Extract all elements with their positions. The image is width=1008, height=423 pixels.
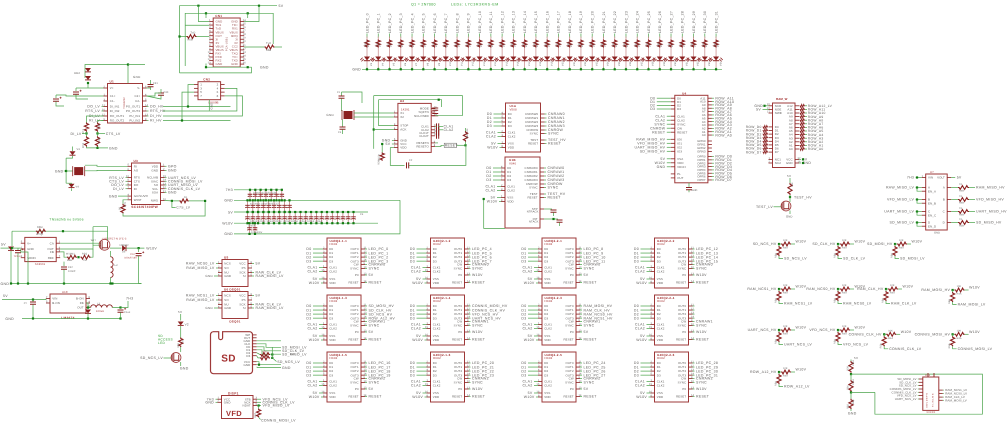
svg-text:SD_MISO_HV: SD_MISO_HV bbox=[976, 221, 1002, 225]
pin U2 CLK2 bbox=[431, 129, 435, 131]
svg-text:R4A: R4A bbox=[783, 375, 788, 378]
svg-text:TK: TK bbox=[959, 218, 963, 221]
pin U40Q2-1-1 CLK1 bbox=[323, 267, 327, 269]
svg-text:CLK2: CLK2 bbox=[433, 270, 441, 274]
svg-text:10K: 10K bbox=[466, 128, 469, 133]
diode pair DE2 bbox=[85, 68, 91, 72]
pin U40Q2-1-2 CLK1 bbox=[427, 267, 431, 269]
pin U1A CLK2 bbox=[502, 136, 506, 138]
pin U9 SHDN bbox=[21, 257, 25, 259]
pin RAM A2 net ROW_A2 bbox=[795, 141, 799, 143]
pins U1B bottom extras bbox=[540, 208, 544, 210]
pin RAM A6 net ROW_A6 bbox=[795, 126, 799, 128]
svg-text:2K: 2K bbox=[435, 44, 438, 47]
resistor R116 2K bbox=[545, 40, 549, 48]
resistor divider down for VFD_NCS_LV bbox=[837, 330, 839, 332]
svg-text:XXXXX: XXXXX bbox=[926, 411, 935, 414]
pin U40Q2-2-2 OUT1 net LED_PC_13 bbox=[689, 252, 693, 254]
junction LED column 6 to GND rail bbox=[434, 68, 436, 70]
pin U1B D3 bbox=[501, 179, 505, 181]
resistor R82 chain bbox=[850, 392, 852, 398]
svg-text:SYNC: SYNC bbox=[584, 267, 595, 271]
svg-text:SHDN: SHDN bbox=[27, 256, 36, 260]
svg-text:W10V: W10V bbox=[524, 338, 535, 342]
svg-text:CLK2: CLK2 bbox=[657, 270, 665, 274]
svg-text:SC16IS740IPW: SC16IS740IPW bbox=[131, 205, 158, 209]
svg-text:31: 31 bbox=[243, 44, 247, 47]
svg-text:L2: L2 bbox=[115, 264, 119, 267]
resistor divider down for RAM_MOSI_LV bbox=[952, 290, 954, 292]
wire LED column 5 bbox=[422, 34, 424, 39]
svg-text:RAW_MISO_LV: RAW_MISO_LV bbox=[886, 186, 915, 190]
svg-text:GND: GND bbox=[224, 400, 231, 404]
pin CN1 right 1 bbox=[240, 21, 244, 23]
svg-text:10K: 10K bbox=[888, 330, 893, 333]
svg-text:V14: V14 bbox=[494, 61, 497, 66]
wire LED column 0 bbox=[366, 34, 368, 39]
wire LED column 26 bbox=[659, 34, 661, 39]
svg-text:CLA2: CLA2 bbox=[635, 384, 645, 388]
junction LED column 29 to GND rail bbox=[693, 68, 695, 70]
svg-text:A0: A0 bbox=[702, 133, 706, 137]
pin U40Q2-2-6 D2 bbox=[651, 370, 655, 372]
svg-text:VDCH: VDCH bbox=[677, 165, 686, 169]
svg-text:2K: 2K bbox=[502, 44, 505, 47]
svg-text:CLK2: CLK2 bbox=[657, 327, 665, 331]
wire U9 GND down bbox=[21, 249, 28, 284]
svg-text:C1-: C1- bbox=[110, 99, 115, 103]
capacitor buck output bbox=[118, 310, 124, 312]
pin CN3 left net CONNIS_MOSI_LV bbox=[919, 388, 923, 390]
svg-text:A: A bbox=[943, 186, 945, 190]
svg-text:12: 12 bbox=[208, 58, 212, 61]
svg-text:W10V: W10V bbox=[901, 330, 912, 334]
junction LED column 12 to GND rail bbox=[501, 68, 503, 70]
pin U9 GND bbox=[21, 248, 25, 250]
pin U40Q2-1-5 VDD bbox=[323, 396, 327, 398]
svg-text:GND: GND bbox=[210, 103, 214, 110]
svg-text:R16: R16 bbox=[432, 42, 435, 47]
resistor divider down for SD_MOSI_LV bbox=[894, 244, 896, 246]
svg-text:CLK2: CLK2 bbox=[657, 384, 665, 388]
pin CN2 left 3 bbox=[194, 87, 198, 89]
svg-text:GND: GND bbox=[244, 363, 251, 367]
svg-text:C3: C3 bbox=[338, 131, 342, 134]
svg-text:OUT: OUT bbox=[77, 306, 84, 310]
pin U40Q2-2-4 OUT2 net None bbox=[689, 313, 693, 315]
pin U40Q2-1-6 OUT2 net LED_PC_22 bbox=[465, 370, 469, 372]
svg-text:RAM_MISO_HV: RAM_MISO_HV bbox=[976, 186, 1005, 190]
pin U3 NWG with resistor R7B bbox=[161, 200, 165, 202]
junction LED column 11 to GND rail bbox=[490, 68, 492, 70]
svg-text:GND: GND bbox=[260, 65, 269, 69]
net label RAM_NCS0_LV output bbox=[838, 301, 842, 304]
pin U40Q2-1-3 P0 bbox=[361, 331, 365, 333]
pin U4 A4 net ROW_A4 bbox=[708, 121, 712, 123]
pin U1 V+ bbox=[104, 87, 108, 89]
svg-text:100nF 4u7/10V C36: 100nF 4u7/10V C36 bbox=[253, 192, 277, 195]
svg-text:RESET: RESET bbox=[472, 281, 486, 285]
wire U2 top loop bbox=[374, 96, 463, 116]
svg-text:2K: 2K bbox=[671, 44, 674, 47]
pin CN1 left 6 bbox=[209, 38, 213, 40]
svg-text:R4A: R4A bbox=[957, 337, 962, 340]
svg-text:2K: 2K bbox=[424, 44, 427, 47]
svg-text:RESET: RESET bbox=[696, 281, 710, 285]
pin CN2 left 7 bbox=[194, 95, 198, 97]
resistor R76 chain bbox=[849, 361, 853, 373]
resistor R119 2K bbox=[579, 40, 583, 48]
svg-text:R4A: R4A bbox=[842, 292, 847, 295]
svg-text:7: 7 bbox=[200, 94, 202, 98]
svg-text:VOLT: VOLT bbox=[937, 176, 945, 180]
svg-text:SYNC: SYNC bbox=[696, 324, 707, 328]
svg-text:W10V: W10V bbox=[796, 326, 807, 330]
svg-text:D3: D3 bbox=[507, 178, 511, 182]
pin U1 C1+ bbox=[104, 95, 108, 97]
pin RAM D2 net ROW_D2 bbox=[769, 133, 773, 135]
svg-text:CLK2: CLK2 bbox=[507, 189, 515, 193]
feedback resistors R5B TM below boost bbox=[60, 252, 67, 257]
svg-text:V-: V- bbox=[137, 86, 140, 90]
svg-text:CONNIS_MOSI_LV: CONNIS_MOSI_LV bbox=[261, 418, 296, 422]
LED V25 bbox=[634, 57, 640, 61]
svg-text:SD_MOSI_LV: SD_MOSI_LV bbox=[900, 257, 925, 261]
pin U1 PO_OUT1 net DO_HV bbox=[143, 106, 147, 108]
svg-text:RESET: RESET bbox=[696, 338, 710, 342]
pin U40Q2-1-1 RESET bbox=[361, 282, 365, 284]
svg-text:VIN: VIN bbox=[52, 297, 57, 301]
IC U11 MISO buffer bbox=[926, 174, 948, 230]
pin U40Q2-2-5 CLK2 bbox=[538, 385, 542, 387]
pin U1 C2+ bbox=[143, 95, 147, 97]
pin CN1 right 2 bbox=[240, 24, 244, 26]
pin U10 VIN bbox=[46, 298, 50, 300]
junction LED column 21 to GND rail bbox=[602, 68, 604, 70]
pin U4 A8 net ROW_A8 bbox=[708, 107, 712, 109]
pin U4 VSA bbox=[671, 158, 675, 160]
ground below chain bbox=[850, 409, 852, 411]
svg-text:GND: GND bbox=[848, 412, 857, 416]
svg-text:R15: R15 bbox=[421, 42, 424, 47]
svg-text:W10V: W10V bbox=[487, 146, 498, 150]
pin U40Q2-1-6 CLK2 bbox=[427, 385, 431, 387]
svg-text:SYNC: SYNC bbox=[548, 132, 559, 136]
pin CN1 left 5 bbox=[209, 35, 213, 37]
svg-text:P0: P0 bbox=[570, 273, 574, 277]
pin U40Q2-1-2 D1 bbox=[427, 252, 431, 254]
svg-text:RESET: RESET bbox=[676, 281, 686, 285]
crystal Q2 circuit bbox=[65, 158, 67, 183]
svg-text:SYNC: SYNC bbox=[548, 186, 559, 190]
svg-text:RI_HV: RI_HV bbox=[150, 119, 162, 123]
svg-text:V34: V34 bbox=[719, 61, 722, 66]
resistor pullup to W10V for CONNIS_MOSI_HV bbox=[953, 333, 955, 335]
svg-text:LED_PC_11: LED_PC_11 bbox=[489, 11, 493, 33]
svg-text:PS: PS bbox=[242, 298, 246, 302]
pin CN1 left 9 bbox=[209, 49, 213, 51]
svg-text:EN_C: EN_C bbox=[928, 213, 936, 217]
pin RAM A11 net ROW_A11 bbox=[795, 108, 799, 110]
svg-text:SD_MOSI_HV: SD_MOSI_HV bbox=[867, 242, 893, 246]
net label CONNIS_MOSI_LV output bbox=[953, 346, 957, 349]
svg-text:D3: D3 bbox=[650, 107, 655, 111]
pin CN1 right 13 bbox=[240, 63, 244, 65]
svg-text:SD_NCS_LV: SD_NCS_LV bbox=[140, 356, 163, 360]
svg-text:CLA2: CLA2 bbox=[308, 270, 318, 274]
pin U4 A0 net ROW_A0 bbox=[708, 134, 712, 136]
pin U40Q2-1-5 OUT2 net LED_PC_18 bbox=[361, 370, 365, 372]
svg-text:FB: FB bbox=[50, 250, 54, 254]
pin U40Q2-2-5 OUT0 net LED_PC_24 bbox=[576, 362, 580, 364]
pin U11 A net RAW_MISO_LV bbox=[922, 187, 926, 189]
pin U40Q2-2-2 VSS bbox=[651, 278, 655, 280]
pin U2 RESETN bbox=[431, 142, 435, 144]
svg-text:SYNC: SYNC bbox=[584, 381, 595, 385]
IC U8 RAM 512K bbox=[773, 103, 796, 168]
svg-text:P0: P0 bbox=[682, 273, 686, 277]
pin U4 IO3 net SD_MISO_HV bbox=[671, 150, 675, 152]
wire LED column 22 bbox=[614, 34, 616, 39]
junction LED column 15 to GND rail bbox=[535, 68, 537, 70]
pin U11 EN_C enable bbox=[922, 214, 926, 216]
svg-text:CA: CA bbox=[50, 241, 54, 245]
pin U11 D net SD_MISO_LV bbox=[922, 222, 926, 224]
svg-text:SYNC: SYNC bbox=[472, 267, 483, 271]
pin U40Q2-1-4 VDD bbox=[427, 339, 431, 341]
svg-text:D3: D3 bbox=[329, 259, 333, 263]
svg-text:5V: 5V bbox=[3, 294, 8, 298]
pin U40Q2-2-6 D0 bbox=[651, 362, 655, 364]
svg-text:CLK2: CLK2 bbox=[544, 270, 552, 274]
svg-text:10K: 10K bbox=[890, 284, 895, 287]
wire LED column 9 bbox=[467, 34, 469, 39]
pin DISP1 VCC net 3V3 bbox=[218, 398, 222, 400]
IC U40Q2-2-1 shift register bbox=[542, 238, 576, 288]
pin U3 RTS net RTS_LV bbox=[128, 177, 132, 179]
LED V16 bbox=[533, 57, 539, 61]
svg-text:W10V: W10V bbox=[309, 281, 320, 285]
pin U40Q2-1-1 D3 bbox=[323, 260, 327, 262]
pin U40Q2-2-3 CLK1 bbox=[538, 324, 542, 326]
pin U40Q2-1-3 VSS bbox=[323, 335, 327, 337]
pin CN3 right net RAM_CLK_LV bbox=[939, 396, 943, 398]
junction LED column 14 to GND rail bbox=[524, 68, 526, 70]
svg-text:5V: 5V bbox=[369, 273, 374, 277]
svg-text:VFD_NCS_HV: VFD_NCS_HV bbox=[809, 328, 836, 332]
svg-text:SO: SO bbox=[224, 298, 229, 302]
pin U4 CLA1 bbox=[671, 115, 675, 117]
pin SD VCC bbox=[253, 361, 257, 363]
svg-text:2K: 2K bbox=[604, 44, 607, 47]
pin U40Q2-2-5 D0 bbox=[538, 362, 542, 364]
svg-text:W10V: W10V bbox=[696, 330, 707, 334]
svg-text:V31: V31 bbox=[685, 61, 688, 66]
pin U1A D1 bbox=[502, 117, 506, 119]
svg-text:RAW_MOSI_LV: RAW_MOSI_LV bbox=[256, 306, 285, 310]
diode V4 below crystal bbox=[69, 184, 75, 188]
IC U40Q2-2-6 shift register bbox=[655, 352, 689, 402]
pin SRAM SCK net RAW_CLK_LV bbox=[248, 304, 252, 306]
pin U40Q2-1-5 RESET bbox=[361, 396, 365, 398]
pin SRAM SCK net RAW_CLK_LV bbox=[248, 272, 252, 274]
svg-text:GND: GND bbox=[786, 161, 793, 165]
capacitor C30 bbox=[158, 93, 164, 95]
net label C7S_LV at U3 bbox=[172, 201, 176, 208]
svg-text:RO_OUT2: RO_OUT2 bbox=[110, 119, 125, 123]
pin U40Q2-1-6 OUT0 net LED_PC_20 bbox=[465, 362, 469, 364]
pin CN2 left 5 bbox=[194, 91, 198, 93]
LED V2 SD access bbox=[178, 322, 184, 326]
pin CN3 right net RAM_MOSI_LV bbox=[939, 399, 943, 401]
svg-text:SD_CLK_LV: SD_CLK_LV bbox=[843, 257, 866, 261]
pin U2 STOP bbox=[394, 125, 398, 127]
pin U40Q2-2-2 OUT0 net LED_PC_12 bbox=[689, 248, 693, 250]
svg-text:SYNC: SYNC bbox=[472, 381, 483, 385]
svg-text:Q1 = 2N7000: Q1 = 2N7000 bbox=[411, 3, 436, 7]
pin U40Q2-1-6 P0 bbox=[465, 388, 469, 390]
svg-text:W10V: W10V bbox=[855, 326, 866, 330]
wire bus box around cap bank bbox=[251, 200, 400, 234]
svg-text:GND: GND bbox=[109, 146, 118, 150]
pin U40Q2-2-6 CW net CNRAW2 bbox=[689, 378, 693, 380]
svg-text:SYNC: SYNC bbox=[678, 381, 687, 385]
pin U40Q2-1-1 OUT1 net LED_PC_1 bbox=[361, 252, 365, 254]
pin U3 CTS net CTS_LV bbox=[128, 180, 132, 182]
svg-text:R4A: R4A bbox=[783, 333, 788, 336]
svg-text:R4A: R4A bbox=[957, 293, 962, 296]
svg-text:RESET: RESET bbox=[676, 395, 686, 399]
svg-text:R4A: R4A bbox=[842, 247, 847, 250]
svg-text:GND: GND bbox=[205, 401, 214, 405]
svg-text:R91: R91 bbox=[847, 384, 850, 389]
svg-text:7: 7 bbox=[59, 255, 61, 258]
svg-text:2K: 2K bbox=[716, 44, 719, 47]
svg-text:TK: TK bbox=[959, 207, 963, 210]
svg-text:NCS: NCS bbox=[224, 294, 230, 298]
resistor pullup to W10V for RAM_CLK_HV bbox=[886, 288, 888, 290]
wire LED column 4 bbox=[411, 34, 413, 39]
pin U4 OPR7 net ROW_D7 bbox=[708, 179, 712, 181]
svg-text:V9: V9 bbox=[438, 62, 441, 66]
svg-text:VDD: VDD bbox=[329, 281, 335, 285]
svg-text:GND: GND bbox=[786, 215, 793, 219]
resistor divider down for ROW_A12_LV bbox=[778, 372, 780, 374]
pin U11 EN_A enable bbox=[922, 190, 926, 192]
svg-text:CLK2T: CLK2T bbox=[419, 134, 429, 138]
svg-text:GND: GND bbox=[109, 194, 118, 198]
svg-text:100nF: 100nF bbox=[68, 270, 76, 273]
svg-text:CLA2: CLA2 bbox=[523, 270, 533, 274]
svg-text:LED_PC_3: LED_PC_3 bbox=[399, 13, 403, 33]
resistor pullup to W10V for RAM_NCS0_HV bbox=[838, 288, 840, 290]
svg-text:GND: GND bbox=[133, 75, 141, 79]
pin U4 OPR2 net ROW_D2 bbox=[708, 162, 712, 164]
pin U1A VDD bbox=[502, 147, 506, 149]
svg-text:VFD_NCS_LV: VFD_NCS_LV bbox=[843, 343, 869, 347]
svg-text:GND: GND bbox=[5, 317, 14, 321]
pin U40Q2-1-6 VDD bbox=[427, 396, 431, 398]
pin U40Q2-2-6 OUT2 net LED_PC_30 bbox=[689, 370, 693, 372]
wire boost GND rail bbox=[11, 283, 142, 285]
svg-text:SC4501: SC4501 bbox=[35, 263, 46, 266]
svg-text:UART_NCS_LV: UART_NCS_LV bbox=[784, 343, 812, 347]
svg-text:W10x: W10x bbox=[378, 153, 381, 160]
pin CN3 right net RAM_NCS0_LV bbox=[939, 393, 943, 395]
pin CN1 right 12 bbox=[240, 60, 244, 62]
svg-text:LED_PC_21: LED_PC_21 bbox=[602, 11, 606, 33]
pin CN1 left 4 bbox=[209, 31, 213, 33]
svg-text:V+: V+ bbox=[27, 241, 31, 245]
capacitor C input boost bbox=[15, 251, 21, 253]
svg-text:V23: V23 bbox=[595, 61, 598, 66]
pin RAM D3 net ROW_D3 bbox=[769, 137, 773, 139]
IC U40Q2-2-5 shift register bbox=[542, 352, 576, 402]
svg-text:8: 8 bbox=[89, 296, 91, 299]
svg-text:TK: TK bbox=[959, 195, 963, 198]
svg-text:U5: U5 bbox=[224, 255, 229, 259]
pin CN2 right 2 bbox=[221, 84, 225, 86]
pin CN1 right 7 bbox=[240, 42, 244, 44]
svg-text:RAM_NCS1_HV: RAM_NCS1_HV bbox=[747, 287, 777, 291]
net label RAM_MOSI_LV output bbox=[953, 302, 957, 305]
pin U4 D3 bbox=[671, 108, 675, 110]
LED V27 bbox=[657, 57, 663, 61]
pin U1 V- bbox=[143, 87, 147, 89]
pin U1B CNROW bbox=[540, 183, 544, 185]
svg-text:C: C bbox=[943, 210, 945, 214]
resistor R128 2K bbox=[680, 40, 684, 48]
pin U4 VDD bbox=[671, 162, 675, 164]
pin U40Q2-2-1 CLK2 bbox=[538, 271, 542, 273]
svg-text:D3: D3 bbox=[544, 373, 548, 377]
svg-text:R87: R87 bbox=[254, 412, 257, 417]
pin U40Q2-2-3 CW net CNRAW1 bbox=[576, 321, 580, 323]
pin U40Q2-2-1 OUT3 net LED_PC_11 bbox=[576, 260, 580, 262]
LED V14 bbox=[510, 57, 516, 61]
wire CN1 vertical stubs bbox=[197, 6, 199, 18]
svg-text:VDD: VDD bbox=[657, 281, 663, 285]
pin U1B SYNC bbox=[540, 187, 544, 189]
diode D5 1N5822 bbox=[110, 247, 122, 249]
net label UART_NCS_LV output bbox=[779, 342, 783, 345]
svg-text:V040: V040 bbox=[509, 161, 517, 165]
svg-text:5V: 5V bbox=[584, 330, 589, 334]
pin U40Q2-2-1 OUT0 net LED_PC_8 bbox=[576, 248, 580, 250]
svg-text:RAW_MISO_LV: RAW_MISO_LV bbox=[186, 266, 215, 270]
wire LED column 7 bbox=[445, 34, 447, 39]
LED V2 bbox=[375, 57, 381, 61]
net label VFD_NCS_LV output bbox=[838, 342, 842, 345]
wire LED column 23 bbox=[625, 34, 627, 39]
pin SD CLK bbox=[253, 343, 257, 345]
wires SD data to labels bbox=[257, 340, 281, 342]
wire LED column 19 bbox=[580, 34, 582, 39]
svg-text:10K: 10K bbox=[783, 325, 788, 328]
pin CN1 left 12 bbox=[209, 60, 213, 62]
svg-text:CLA2: CLA2 bbox=[486, 135, 496, 139]
pin U2 RESETO bbox=[431, 145, 435, 147]
svg-text:HC02: HC02 bbox=[433, 242, 441, 246]
pin CN3 left net CONNIS_CLK_LV bbox=[919, 391, 923, 393]
svg-text:HC02: HC02 bbox=[330, 299, 338, 303]
svg-text:10K: 10K bbox=[783, 239, 788, 242]
svg-text:SD_NCS_LV: SD_NCS_LV bbox=[277, 360, 300, 364]
svg-text:2K: 2K bbox=[694, 44, 697, 47]
wire CN2 pin2 wrap to RTS_HV bus bbox=[225, 88, 237, 111]
wire LED column 11 bbox=[490, 34, 492, 39]
svg-text:R30: R30 bbox=[589, 42, 592, 47]
